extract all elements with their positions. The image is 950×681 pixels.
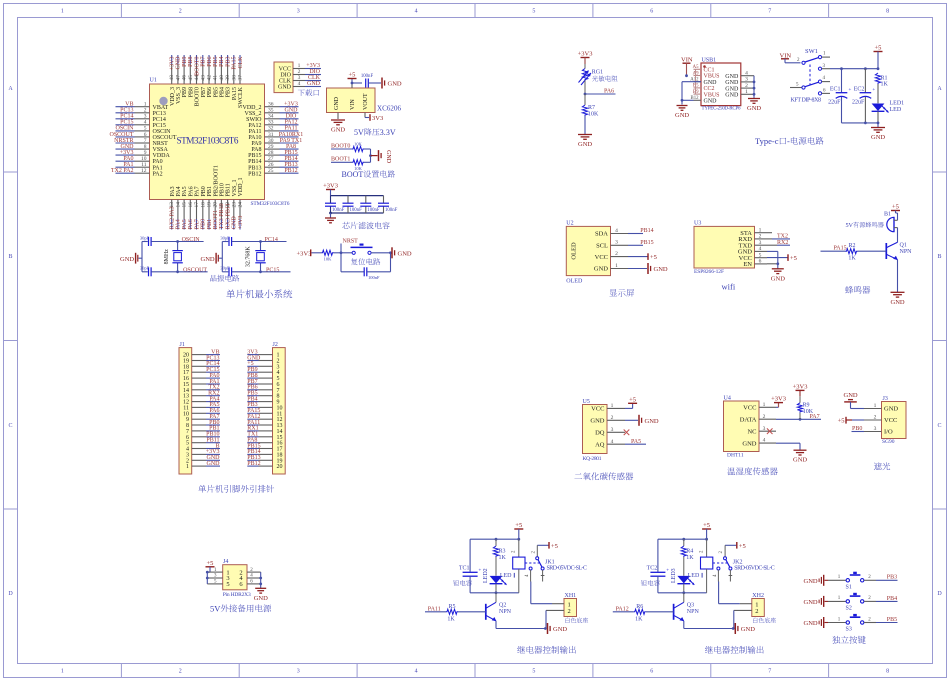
push button S2 xyxy=(828,594,898,611)
svg-text:U1: U1 xyxy=(150,78,157,84)
svg-text:1: 1 xyxy=(61,669,64,675)
svg-text:C: C xyxy=(8,423,12,429)
svg-text:37: 37 xyxy=(238,75,244,81)
U1 pin 29 PA8 xyxy=(251,144,298,153)
J4 pin 5 xyxy=(207,580,229,589)
svg-text:1: 1 xyxy=(763,402,766,408)
capacitor 30pF bottom xyxy=(220,266,260,277)
svg-text:PA5: PA5 xyxy=(182,186,188,196)
switch SW1 pole A xyxy=(797,52,830,71)
svg-text:4: 4 xyxy=(745,71,748,77)
wire node PA6 xyxy=(584,81,616,96)
resistor R3 1K xyxy=(493,539,506,576)
U1 pin 5 OSCIN xyxy=(116,126,172,135)
svg-text:5: 5 xyxy=(144,126,147,132)
ground type-c xyxy=(871,123,885,141)
svg-text:VIN: VIN xyxy=(681,57,693,64)
regulator U6 XC6206 body xyxy=(327,88,376,113)
ground bar key S1 xyxy=(804,575,829,586)
push button S4 reset xyxy=(341,245,391,255)
U1 pin 30 PA9 xyxy=(251,138,298,147)
ground bar relay xyxy=(735,623,755,634)
J4 pin 6 xyxy=(239,580,260,589)
svg-text:1K: 1K xyxy=(499,555,507,561)
svg-text:GND: GND xyxy=(334,96,340,110)
svg-text:S2: S2 xyxy=(846,605,852,611)
LED LED3 xyxy=(671,568,695,592)
svg-text:2: 2 xyxy=(568,608,571,615)
wire U2 VCC xyxy=(628,256,648,258)
svg-text:GND: GND xyxy=(844,392,858,399)
title independent keys xyxy=(832,636,840,644)
U1 pin 6 OSCOUT xyxy=(116,132,177,141)
U1 pin 4 PC15 xyxy=(116,120,166,129)
J1 pin 18 xyxy=(183,364,220,370)
title buzzer xyxy=(845,286,853,294)
U1 pin 15 PA5 xyxy=(182,186,189,229)
svg-text:RX2: RX2 xyxy=(777,240,788,246)
svg-text:OSCOUT: OSCOUT xyxy=(153,135,177,141)
svg-text:PC15: PC15 xyxy=(153,123,166,129)
U2 pin 1 GND xyxy=(594,263,628,273)
svg-text:OSCIN: OSCIN xyxy=(182,237,201,243)
U1 pin 42 PB6 xyxy=(206,55,213,97)
capacitor TC2 tantalum xyxy=(647,539,670,593)
svg-text:PA6: PA6 xyxy=(188,186,194,196)
wire BOOT1 xyxy=(331,161,352,163)
USB1 pin 2 GND right xyxy=(725,83,754,92)
title download port xyxy=(298,89,305,96)
svg-text:GND: GND xyxy=(388,81,402,88)
power +5 relay contact xyxy=(549,542,558,550)
svg-text:39: 39 xyxy=(225,75,231,81)
svg-text:+5: +5 xyxy=(650,254,657,261)
svg-text:EC2: EC2 xyxy=(854,87,865,93)
J2 pin 9 xyxy=(247,400,279,406)
svg-text:S1: S1 xyxy=(846,584,852,590)
svg-text:PA1: PA1 xyxy=(123,162,133,168)
svg-text:VOUT: VOUT xyxy=(363,93,369,110)
J2 pin 1 xyxy=(247,353,279,359)
svg-text:NC: NC xyxy=(747,428,756,435)
wire filter bottom rail xyxy=(331,212,384,214)
svg-text:18: 18 xyxy=(200,202,206,208)
U1 pin 20 PB2/BOOT1 xyxy=(213,165,220,229)
svg-text:J4: J4 xyxy=(223,559,228,565)
svg-text:33: 33 xyxy=(268,120,274,126)
svg-text:GND: GND xyxy=(176,56,182,70)
wire join xyxy=(364,149,378,162)
USB1 pin 1 GND right xyxy=(725,89,754,98)
svg-text:5V: 5V xyxy=(846,222,854,229)
J1 pin 14 xyxy=(183,388,220,394)
svg-text:wifi: wifi xyxy=(722,282,736,292)
svg-text:TC2: TC2 xyxy=(647,566,658,572)
svg-text:CC1: CC1 xyxy=(704,68,715,74)
title filter caps xyxy=(342,222,349,229)
svg-text:GND: GND xyxy=(594,266,608,273)
U2 pin 2 VCC xyxy=(595,251,628,261)
svg-text:PB13: PB13 xyxy=(284,162,297,168)
svg-text:4: 4 xyxy=(298,81,301,87)
svg-text:NPN: NPN xyxy=(499,609,512,615)
J1 pin 16 xyxy=(183,376,220,382)
svg-text:VCC: VCC xyxy=(884,417,897,424)
svg-text:LED: LED xyxy=(500,573,512,579)
U5 pin 2 GND xyxy=(590,415,625,425)
U2 pin 4 SDA xyxy=(595,228,628,238)
svg-text:PC15: PC15 xyxy=(120,120,133,126)
title header pins xyxy=(198,485,206,493)
U1 pin 34 SWIO xyxy=(246,114,298,123)
svg-text:Type-c: Type-c xyxy=(755,136,779,146)
power +5 type-c xyxy=(874,45,883,69)
P1 pin 4 GND xyxy=(278,81,321,90)
connector J2 body xyxy=(273,348,286,474)
P1 pin 3 CLK xyxy=(279,75,321,84)
U1 pin 33 PA12 xyxy=(248,120,298,129)
svg-text:PA4: PA4 xyxy=(176,219,182,229)
svg-text:5: 5 xyxy=(532,669,535,675)
svg-text:32.768K: 32.768K xyxy=(246,246,252,268)
wire CC tie xyxy=(695,69,697,94)
J1 pin 5 xyxy=(186,441,220,447)
svg-text:PB3: PB3 xyxy=(887,575,897,581)
svg-text:PB0: PB0 xyxy=(201,219,207,229)
svg-text:30pF: 30pF xyxy=(140,266,150,271)
J2 pin 8 xyxy=(247,394,279,400)
J2 pin 5 xyxy=(247,376,279,382)
power +3V3 photoresistor xyxy=(578,51,593,65)
wire PA15 xyxy=(821,250,846,252)
ground bar key S2 xyxy=(804,596,829,607)
power +5 J4 xyxy=(206,560,215,572)
svg-text:PA15: PA15 xyxy=(232,87,238,100)
svg-text:GND: GND xyxy=(793,457,807,464)
wire U3 STA xyxy=(767,232,772,234)
svg-text:46: 46 xyxy=(182,75,188,81)
U1 pin 45 PB8 xyxy=(188,55,195,97)
svg-text:10K: 10K xyxy=(324,256,333,261)
svg-text:PB14: PB14 xyxy=(248,159,261,165)
svg-text:48: 48 xyxy=(169,75,175,81)
svg-text:3.3V: 3.3V xyxy=(380,128,396,137)
J1 pin 11 xyxy=(183,405,220,411)
svg-text:+5: +5 xyxy=(349,72,356,79)
svg-text:6: 6 xyxy=(759,259,762,265)
U1 pin 2 PC13 xyxy=(116,108,166,117)
ground bar at BOOT xyxy=(379,150,392,164)
wire reset xyxy=(312,252,322,254)
svg-text:LED: LED xyxy=(688,573,700,579)
wire U3 TXD xyxy=(767,244,790,246)
svg-text:38: 38 xyxy=(231,75,237,81)
J1 pin 9 xyxy=(186,417,220,423)
svg-text:-: - xyxy=(787,136,790,146)
U1 pin 11 PA1 xyxy=(116,162,163,171)
svg-text:U4: U4 xyxy=(724,396,731,402)
svg-text:7: 7 xyxy=(144,138,147,144)
J2 pin 13 xyxy=(247,423,282,429)
svg-text:SDA: SDA xyxy=(595,231,608,238)
svg-text:3V3: 3V3 xyxy=(372,115,383,122)
svg-text:VSS_2: VSS_2 xyxy=(244,111,261,117)
svg-text:PA6: PA6 xyxy=(604,88,614,94)
module U3 ESP8266 body xyxy=(694,226,755,268)
svg-text:6: 6 xyxy=(650,9,653,15)
J1 pin 17 xyxy=(183,370,220,376)
svg-text:+3V3: +3V3 xyxy=(238,216,244,230)
J3 pin 2 VCC xyxy=(864,414,897,424)
U1 pin 43 PB7 xyxy=(200,55,207,97)
svg-text:PB5: PB5 xyxy=(213,87,219,97)
svg-text:GND: GND xyxy=(645,418,659,425)
svg-text:2: 2 xyxy=(745,83,748,89)
svg-text:PB12: PB12 xyxy=(247,461,260,467)
svg-text:GND: GND xyxy=(742,440,756,447)
U2 pin 3 SCL xyxy=(596,240,628,250)
photoresistor RG1 xyxy=(579,64,604,85)
svg-text:24: 24 xyxy=(238,202,244,208)
svg-text:PB8: PB8 xyxy=(188,57,194,67)
connector XH2 body xyxy=(752,599,765,617)
U3 pin 4 GND xyxy=(738,246,767,256)
svg-text:PA11: PA11 xyxy=(285,126,298,132)
svg-text:R4: R4 xyxy=(686,549,693,555)
svg-text:KQ-2801: KQ-2801 xyxy=(583,456,602,462)
U1 pin 19 PB1 xyxy=(206,186,213,229)
sensor U5 KQ-2801 body xyxy=(583,405,608,454)
XH1 pin 1 xyxy=(552,601,571,608)
connector J1 body xyxy=(179,348,192,474)
wire relay bottom rail xyxy=(658,591,707,594)
svg-text:LED3: LED3 xyxy=(671,568,677,583)
U1 pin 37 SWCLK xyxy=(238,55,245,108)
capacitor EC2 22uF xyxy=(852,69,875,123)
svg-text:PB1: PB1 xyxy=(207,186,213,196)
wire U5 AQ xyxy=(625,443,646,445)
svg-text:PA12: PA12 xyxy=(284,120,297,126)
svg-text:GND: GND xyxy=(871,134,885,141)
svg-text:GND: GND xyxy=(398,250,412,257)
junction filter xyxy=(329,212,332,215)
J2 pin 15 xyxy=(247,435,282,441)
XH1 pin 2 xyxy=(546,608,571,628)
svg-text:30pF: 30pF xyxy=(220,266,230,271)
svg-text:OSCOUT: OSCOUT xyxy=(183,267,207,273)
J1 pin 12 xyxy=(183,400,220,406)
ground bar U5 xyxy=(639,415,659,426)
power VIN flag xyxy=(681,57,693,78)
U3 pin 6 EN xyxy=(743,259,767,269)
svg-text:PB8: PB8 xyxy=(188,87,194,97)
op-amp U1 STM32F103C8T6 body xyxy=(150,84,265,200)
svg-text:PA5: PA5 xyxy=(631,439,641,445)
svg-text:5V: 5V xyxy=(210,604,221,614)
svg-text:1: 1 xyxy=(759,227,762,233)
svg-text:15: 15 xyxy=(182,202,188,208)
power +5 relay JK2 xyxy=(702,522,711,539)
svg-text:S3: S3 xyxy=(846,627,852,633)
transistor Q3 NPN xyxy=(674,593,700,629)
svg-text:+3V3: +3V3 xyxy=(297,250,312,257)
power +5 J3 xyxy=(838,417,864,425)
svg-text:PA9 TX1: PA9 TX1 xyxy=(280,138,303,144)
svg-text:+: + xyxy=(666,569,669,574)
U1 pin 35 VSS_2 xyxy=(244,108,298,117)
svg-text:28: 28 xyxy=(268,150,274,156)
svg-text:R2: R2 xyxy=(848,243,855,249)
svg-text:+5: +5 xyxy=(703,522,710,529)
svg-text:+5: +5 xyxy=(875,45,882,52)
svg-text:GND: GND xyxy=(725,93,739,99)
svg-text:VSS_1: VSS_1 xyxy=(232,179,238,196)
svg-text:8: 8 xyxy=(886,9,889,15)
svg-text:VCC: VCC xyxy=(595,254,608,261)
label photoresistor xyxy=(592,76,598,82)
svg-text:GND: GND xyxy=(741,626,755,633)
svg-text:OLED: OLED xyxy=(566,279,583,285)
J4 pin 2 xyxy=(239,568,260,577)
wire U2 SCL xyxy=(628,244,643,246)
svg-text:VIN: VIN xyxy=(350,99,356,110)
svg-text:PC13: PC13 xyxy=(120,108,133,114)
U6 pin VIN xyxy=(350,83,356,110)
label tantalum xyxy=(453,580,459,586)
svg-text:2: 2 xyxy=(763,414,766,420)
svg-text:TX2 PA2: TX2 PA2 xyxy=(111,168,134,174)
svg-text:32: 32 xyxy=(268,126,274,132)
svg-text:35: 35 xyxy=(268,108,274,114)
ground photoresistor xyxy=(578,116,592,148)
connector P1 download port body xyxy=(274,62,293,93)
svg-text:2: 2 xyxy=(179,9,182,15)
wire VIN to cap xyxy=(352,82,362,84)
title reset circuit xyxy=(351,258,358,265)
svg-text:40: 40 xyxy=(219,75,225,81)
svg-text:+: + xyxy=(849,88,852,93)
USB1 pin A5 CC1 xyxy=(693,65,715,73)
ground bar reset xyxy=(389,247,412,258)
wire contact to XH xyxy=(531,582,552,604)
svg-text:8: 8 xyxy=(886,669,889,675)
title relay output xyxy=(705,646,713,654)
svg-text:XC6206: XC6206 xyxy=(377,105,402,113)
svg-text:PB2/BOOT1: PB2/BOOT1 xyxy=(213,165,219,196)
svg-text:4: 4 xyxy=(611,439,614,445)
svg-text:NRSTR: NRSTR xyxy=(114,138,133,144)
U1 pin 12 PA2 xyxy=(116,168,163,177)
U4 pin 2 DATA xyxy=(740,414,776,424)
svg-text:3: 3 xyxy=(611,427,614,433)
svg-text:PA3: PA3 xyxy=(170,186,176,196)
connector J3 SG90 body xyxy=(882,402,907,439)
svg-text:GND: GND xyxy=(590,418,604,425)
wire U4 GND xyxy=(776,443,800,450)
svg-text:VCC: VCC xyxy=(743,405,756,412)
svg-text:4: 4 xyxy=(759,246,762,252)
svg-text:23: 23 xyxy=(231,202,237,208)
capacitor 30pF top xyxy=(140,235,178,246)
power +5 buzzer xyxy=(891,204,900,221)
svg-text:U2: U2 xyxy=(566,221,573,227)
power +5 U5 xyxy=(628,396,637,403)
power +3V3 R9 xyxy=(793,383,808,390)
svg-text:+5: +5 xyxy=(629,396,636,403)
ground buzzer xyxy=(891,292,905,306)
U1 pin 47 VSS_3 xyxy=(175,55,182,104)
svg-text:10K: 10K xyxy=(588,112,599,118)
crystal 8MHz xyxy=(164,240,183,273)
svg-text:AQ: AQ xyxy=(595,441,605,448)
capacitor C2 100nF xyxy=(343,196,363,213)
J1 pin 4 xyxy=(186,447,220,453)
wire relay bottom rail xyxy=(470,591,519,594)
U1 pin 16 PA6 xyxy=(188,186,195,229)
svg-text:PB12: PB12 xyxy=(248,171,261,177)
svg-text:PA7: PA7 xyxy=(194,219,200,229)
svg-text:PB6: PB6 xyxy=(207,56,213,66)
svg-text:GND: GND xyxy=(804,599,818,606)
wire emitter rail xyxy=(684,627,735,630)
U1 pin 27 PB14 xyxy=(248,156,298,165)
svg-text:BOOT: BOOT xyxy=(342,170,364,179)
capacitor EC1 22uF xyxy=(828,69,851,123)
svg-text:1: 1 xyxy=(615,263,618,269)
svg-text:PB6: PB6 xyxy=(207,87,213,97)
U1 pin 36 VDD_2 xyxy=(243,102,299,111)
svg-text:VBUS: VBUS xyxy=(704,74,720,80)
U1 pin 48 VDD_3 xyxy=(169,55,176,106)
svg-text:6: 6 xyxy=(650,669,653,675)
svg-text:LED2: LED2 xyxy=(483,568,489,583)
svg-text:GND: GND xyxy=(254,595,268,602)
LED LED2 xyxy=(483,568,507,592)
power VIN at SW1 xyxy=(780,52,801,63)
svg-text:100nF: 100nF xyxy=(385,208,398,213)
J4 pin 4 xyxy=(239,574,260,583)
svg-text:VSS_3: VSS_3 xyxy=(176,87,182,104)
svg-text:GND: GND xyxy=(704,99,718,105)
svg-text:26: 26 xyxy=(268,162,274,168)
svg-text:SWCLK: SWCLK xyxy=(238,86,244,108)
svg-text:D: D xyxy=(937,591,942,597)
ground at U6 xyxy=(331,120,345,134)
svg-text:PB9: PB9 xyxy=(182,87,188,97)
wire filter top rail xyxy=(331,195,384,197)
wire net stubs xyxy=(261,242,291,272)
svg-text:NRST: NRST xyxy=(153,141,169,147)
U1 pin 9 VDDA xyxy=(116,150,171,159)
J4 pin 3 xyxy=(207,574,229,583)
power 3V3 at VOUT xyxy=(370,114,383,122)
U5 pin 3 DQ xyxy=(595,427,625,437)
wire U3 GND xyxy=(767,251,778,263)
svg-text:2: 2 xyxy=(759,234,762,240)
svg-text:SW1: SW1 xyxy=(805,48,818,55)
U1 pin 7 NRST xyxy=(116,138,169,147)
push button S1 xyxy=(828,573,898,590)
svg-text:3: 3 xyxy=(297,9,300,15)
U1 pin 21 PB10 xyxy=(219,183,226,229)
J2 pin 19 xyxy=(247,458,282,464)
svg-text:GND: GND xyxy=(804,578,818,585)
wire J4 left rail xyxy=(206,571,209,584)
svg-text:30: 30 xyxy=(268,138,274,144)
svg-text:100nF: 100nF xyxy=(367,208,380,213)
svg-text:PB7: PB7 xyxy=(201,56,207,66)
svg-text:3: 3 xyxy=(297,669,300,675)
